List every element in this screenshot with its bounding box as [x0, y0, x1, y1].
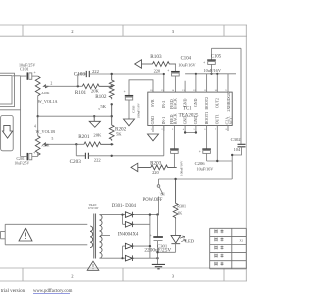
svg-text:\S1: \S1: [160, 192, 165, 196]
node rail R301: [174, 178, 176, 180]
IC bottom pin stubs: [153, 126, 228, 162]
svg-text:C101: C101: [20, 67, 29, 72]
capacitor C202 feedback: [170, 149, 179, 167]
svg-text:X1: X1: [240, 239, 244, 243]
svg-text:W_VOL1A: W_VOL1A: [38, 99, 58, 104]
svg-text:20K: 20K: [91, 89, 100, 94]
input arrow flag lower: [131, 163, 151, 171]
sheet right border: [245, 25, 247, 281]
diode D304: [125, 255, 134, 261]
svg-text:3: 3: [98, 107, 100, 111]
ground pin1: [148, 134, 159, 141]
capacitor C104: [171, 64, 180, 92]
gnd U link: [185, 132, 196, 134]
svg-text:IN4004X4: IN4004X4: [118, 233, 139, 238]
svg-text:BOOT2: BOOT2: [205, 97, 209, 110]
svg-text:C105: C105: [211, 54, 222, 59]
IC pin numbers: [150, 89, 228, 131]
capacitor C201: [21, 153, 38, 161]
node C103/R102: [111, 73, 113, 75]
svg-text:C206: C206: [195, 161, 206, 166]
svg-text:+: +: [124, 89, 126, 93]
sheet top ruler band: [0, 25, 247, 36]
svg-text:VCC: VCC: [230, 116, 234, 124]
svg-text:2XBRIDGE: 2XBRIDGE: [227, 92, 231, 112]
bridge wires: [100, 214, 157, 216]
svg-text:BACK: BACK: [173, 98, 177, 109]
svg-text:R201: R201: [78, 134, 90, 140]
warning triangle bottom: [87, 261, 99, 270]
svg-text:A10K: A10K: [41, 91, 50, 95]
diode D302: [125, 222, 134, 228]
svg-text:R101: R101: [75, 90, 87, 96]
svg-text:5: 5: [52, 137, 54, 141]
svg-text:GND: GND: [194, 98, 198, 107]
node R101 left: [77, 85, 79, 87]
warning triangle in transformer box: [19, 229, 32, 242]
node R201 left: [75, 143, 77, 145]
svg-text:IN-2: IN-2: [162, 101, 166, 108]
svg-text:GND: GND: [183, 98, 187, 107]
resistor R201: [84, 142, 114, 147]
svg-text:OUT1: OUT1: [216, 114, 220, 124]
bridge nodes: [149, 213, 151, 215]
ground: [89, 116, 100, 127]
svg-text:R301: R301: [177, 203, 186, 208]
svg-text:220: 220: [154, 68, 161, 73]
capacitor C105: [207, 48, 216, 74]
svg-text:220: 220: [152, 170, 159, 175]
svg-text:1K: 1K: [177, 210, 182, 215]
svg-text:104: 104: [234, 147, 241, 152]
resistor R102: [109, 74, 114, 99]
transformer T1: [1, 214, 103, 259]
ground: [124, 119, 135, 126]
svg-text:222: 222: [94, 158, 102, 163]
potentiometer W_VOL1A: [35, 76, 48, 96]
wire: [0, 109, 21, 111]
capacitor C203: [85, 153, 163, 159]
svg-text:GND: GND: [183, 116, 187, 125]
svg-text:C203: C203: [70, 159, 82, 165]
node led return: [156, 251, 158, 253]
connector box J2 with arrow: [1, 116, 14, 151]
svg-text:SVR: SVR: [151, 99, 155, 107]
node mid: [111, 103, 113, 105]
svg-text:BACK: BACK: [173, 113, 177, 124]
sheet bottom ruler band: [0, 268, 247, 281]
wire: [37, 96, 39, 136]
svg-text:100uF/16V: 100uF/16V: [137, 103, 141, 119]
svg-text:C302: C302: [231, 137, 242, 142]
out wire: [207, 160, 233, 162]
resistor R103: [153, 62, 176, 67]
switch S1: [157, 179, 163, 215]
capacitor C103: [86, 71, 164, 77]
svg-text:+: +: [167, 69, 169, 73]
diode D303: [125, 243, 134, 249]
node R201 right: [111, 143, 113, 145]
ground main: [152, 264, 165, 268]
node pots-gnd: [37, 115, 39, 117]
svg-text:R102: R102: [95, 94, 107, 100]
svg-text:W_VOL1B: W_VOL1B: [36, 129, 56, 134]
resistor R202: [109, 104, 114, 140]
supply top wire: [212, 48, 242, 144]
svg-text:BOOT1: BOOT1: [205, 112, 209, 125]
svg-text:IN-1: IN-1: [162, 117, 166, 124]
diode D301: [125, 212, 134, 218]
svg-text:2200uF/25V: 2200uF/25V: [144, 248, 171, 254]
svg-text:222: 222: [92, 69, 100, 74]
svg-text:C303: C303: [131, 105, 135, 113]
capacitor C101: [27, 72, 37, 79]
svg-text:C103: C103: [74, 71, 86, 77]
connector box J1 (left input): [0, 73, 15, 106]
svg-text:20K: 20K: [93, 133, 102, 138]
svg-text:R103: R103: [150, 54, 162, 60]
svg-text:LED: LED: [185, 238, 195, 243]
svg-text:4: 4: [34, 125, 36, 129]
LED D305: [158, 218, 186, 252]
svg-text:100uF/16V: 100uF/16V: [180, 160, 184, 176]
IC top pin stubs: [164, 74, 228, 92]
capacitor C206: [202, 149, 211, 161]
node C203 right: [111, 155, 113, 157]
title block labels: [215, 229, 244, 265]
IC pin labels rotated: [151, 92, 233, 125]
node C302: [231, 154, 233, 156]
svg-text:trial version: trial version: [1, 288, 26, 294]
row labels drawn as small strokes imitating Chinese: [215, 229, 224, 265]
supply rail: [159, 178, 233, 180]
svg-text:D301- D304: D301- D304: [112, 204, 137, 209]
top bus: [185, 73, 236, 75]
svg-text:0.5V/4W: 0.5V/4W: [88, 207, 99, 210]
input arrow flag upper: [135, 60, 153, 68]
svg-text:10uF/16V: 10uF/16V: [178, 63, 196, 68]
svg-text:10uF/25V: 10uF/25V: [15, 161, 30, 165]
svg-text:10uF/16V: 10uF/16V: [204, 68, 222, 73]
svg-text:POW.OFF: POW.OFF: [143, 198, 163, 203]
svg-text:+: +: [199, 149, 201, 153]
svg-text:2: 2: [51, 82, 53, 86]
wire: [44, 85, 83, 87]
svg-text:R203: R203: [150, 161, 162, 167]
capacitor C301: [153, 237, 163, 264]
title block table: [210, 228, 247, 268]
wire: [38, 115, 112, 117]
svg-text:A10K: A10K: [41, 144, 50, 148]
wire: [44, 143, 84, 145]
IC U1 TEA2025 box: [148, 92, 232, 125]
watermark: [1, 288, 73, 294]
capacitor C302: [232, 144, 245, 179]
wire IN1 up: [163, 126, 165, 156]
capacitor C303: [124, 89, 134, 119]
wire: [13, 76, 27, 157]
resistor R301: [173, 179, 178, 219]
node out: [216, 160, 218, 162]
resistor R203: [151, 165, 177, 170]
svg-text:OUT2: OUT2: [216, 98, 220, 108]
svg-text:5K: 5K: [116, 132, 122, 137]
svg-text:5K: 5K: [100, 104, 106, 109]
resistor R101: [82, 84, 111, 89]
svg-text:+: +: [150, 233, 152, 237]
wire C203 branch: [76, 144, 85, 156]
svg-text:C104: C104: [181, 56, 192, 61]
potentiometer W_VOL1B: [35, 136, 48, 156]
power vertical wire: [157, 215, 159, 237]
wire C103 branch left: [78, 74, 86, 86]
svg-text:GND: GND: [151, 116, 155, 125]
svg-text:GND: GND: [194, 116, 198, 125]
SVR wire: [129, 80, 153, 96]
svg-text:10uF/16V: 10uF/16V: [197, 166, 214, 171]
node R101/R102: [111, 85, 113, 87]
svg-text:C201: C201: [17, 157, 25, 161]
